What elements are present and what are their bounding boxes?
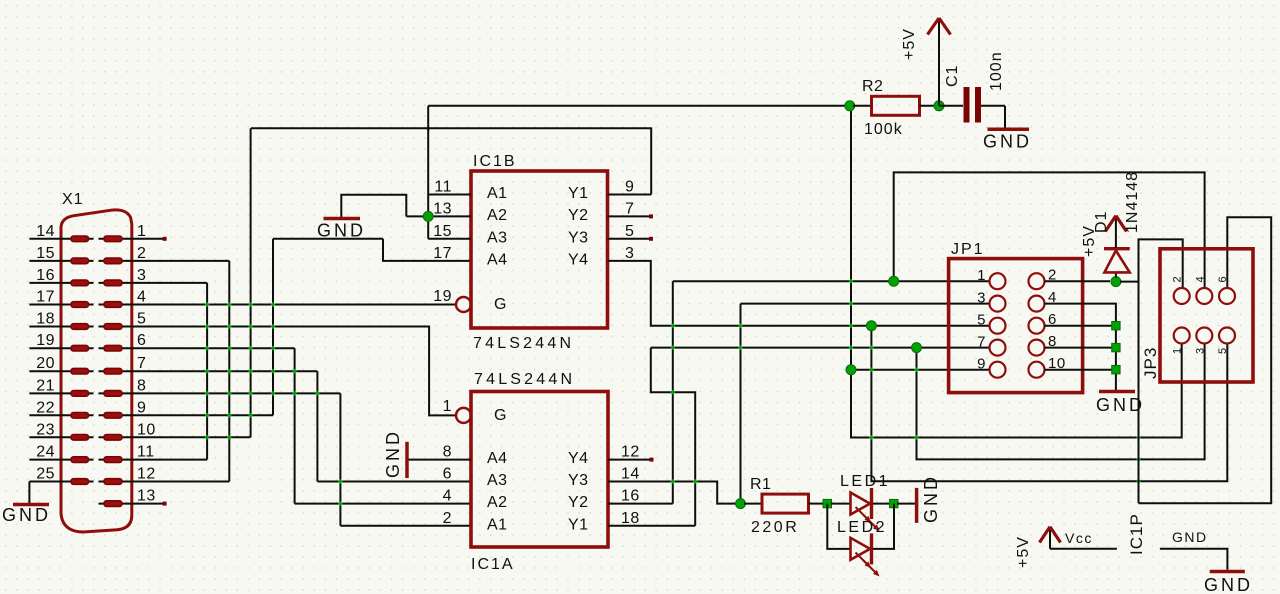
svg-text:10: 10: [137, 421, 156, 438]
pad X1 pin 12: [104, 479, 122, 485]
svg-text:15: 15: [433, 223, 452, 240]
wire X1 pin 21: [29, 392, 93, 394]
junction: [869, 435, 873, 439]
junction: [1136, 435, 1140, 439]
pin stub X1 pin 7: [99, 370, 133, 372]
junction R2 left: [845, 101, 855, 111]
wire X1 pin 18: [29, 326, 93, 328]
wire: [964, 87, 970, 123]
svg-text:GND: GND: [1172, 529, 1208, 545]
wire IC1P VCC: [1050, 548, 1117, 550]
wire JP1 pin6: [1045, 325, 1113, 327]
wire X1 pin8 to V7: [132, 392, 340, 394]
svg-text:R1: R1: [750, 476, 771, 493]
wire: [981, 105, 1005, 107]
svg-text:100n: 100n: [988, 51, 1005, 91]
inversion bubble IC1A G: [456, 408, 471, 423]
junction: [693, 479, 697, 483]
pin JP1 6: [1029, 318, 1045, 334]
wire X1 pin 19: [29, 347, 93, 349]
svg-text:A2: A2: [487, 207, 508, 224]
wire JP1 pin9 row: [851, 369, 989, 371]
svg-text:IC1B: IC1B: [473, 153, 517, 170]
junction: [914, 435, 918, 439]
pin JP1 7: [990, 340, 1006, 356]
junction R1 left: [736, 499, 746, 509]
junction: [315, 391, 319, 395]
svg-text:3: 3: [1194, 347, 1206, 354]
svg-text:+5V: +5V: [901, 28, 918, 60]
junction: [227, 391, 231, 395]
wire X1 pin 15: [29, 260, 93, 262]
svg-text:6: 6: [443, 466, 452, 483]
wire X1 pin 22: [29, 414, 93, 416]
svg-text:15: 15: [36, 245, 55, 262]
wire: [873, 503, 891, 505]
wire X1 pin11: [132, 459, 207, 461]
svg-text:G: G: [494, 407, 507, 424]
svg-text:19: 19: [433, 288, 452, 305]
wire: [1004, 106, 1006, 128]
svg-text:4: 4: [137, 289, 146, 306]
svg-text:Y2: Y2: [568, 494, 589, 511]
wire: [938, 20, 940, 106]
wire V4 from A4 net down to pin9: [272, 239, 274, 415]
wire: [915, 488, 919, 523]
wire: [1210, 570, 1245, 574]
junction: [849, 279, 853, 283]
wire IC1B pin5 stub: [608, 238, 652, 240]
wire: [809, 503, 825, 505]
junction JP1 pin7 row: [912, 343, 922, 353]
svg-text:24: 24: [36, 444, 55, 461]
svg-text:1: 1: [1172, 347, 1184, 354]
pad X1 pin 22: [71, 413, 89, 419]
svg-text:C1: C1: [944, 65, 961, 87]
wire IC1B pin3 Y4 to JP1 pin5: [608, 261, 990, 326]
wire JP1 pin10: [1045, 369, 1113, 371]
pin stub X1 pin 1: [99, 238, 133, 240]
svg-text:220R: 220R: [751, 519, 799, 536]
wire: [870, 488, 873, 519]
junction pin9/V3: [248, 413, 252, 417]
wire V6 pin7 to IC1A A3: [316, 371, 318, 481]
junction: [869, 345, 873, 349]
svg-text:3: 3: [625, 245, 634, 262]
svg-text:GND: GND: [1096, 395, 1145, 415]
wire A4 net horizontal: [273, 238, 383, 240]
pad X1 pin 8: [104, 391, 122, 397]
junction: [271, 302, 275, 306]
svg-text:JP1: JP1: [951, 241, 985, 258]
junction: [227, 302, 231, 306]
junction JP1 pin9 row: [846, 365, 856, 375]
pin stub X1 pin 9: [99, 414, 133, 416]
wire LED2 cathode up: [873, 504, 894, 549]
junction pin8: [1112, 343, 1120, 351]
junction: [869, 368, 873, 372]
pad X1 pin 11: [104, 457, 122, 463]
wire GND to pin13 net: [341, 195, 406, 217]
wire IC1B pin9 Y1: [608, 194, 652, 196]
LED arrow: [864, 561, 877, 574]
wire X1 pin6 to V5: [132, 347, 295, 349]
pin stub X1 pin 3: [99, 282, 133, 284]
pad X1 pin 25: [71, 479, 89, 485]
wire: [1099, 390, 1135, 394]
svg-text:A3: A3: [487, 472, 508, 489]
wire step to IC1B pin17 A4: [383, 239, 471, 261]
junction: [227, 346, 231, 350]
wire: [324, 217, 361, 221]
wire IC1A pin16 Y2: [608, 503, 673, 505]
svg-text:4: 4: [443, 488, 452, 505]
wire X1 pin 14: [29, 238, 93, 240]
junction: [248, 302, 252, 306]
svg-text:D1: D1: [1093, 211, 1110, 233]
junction: [271, 346, 275, 350]
pin stub X1 pin 10: [99, 436, 133, 438]
LED arrow: [856, 553, 869, 566]
svg-text:Y1: Y1: [568, 516, 589, 533]
pin JP3 1: [1174, 328, 1190, 344]
wire IC1B pin13: [406, 215, 471, 217]
svg-text:3: 3: [977, 290, 986, 307]
wire IC1B pin11: [428, 194, 471, 196]
junction: [738, 324, 742, 328]
wire X1 pin3 to V1: [132, 282, 207, 284]
junction: [205, 435, 209, 439]
junction pin6: [1112, 322, 1120, 330]
junction: [271, 391, 275, 395]
svg-text:6: 6: [1217, 276, 1229, 283]
pad X1 pin 17: [71, 302, 89, 308]
svg-text:Y3: Y3: [568, 229, 589, 246]
wire X1 pin 23: [29, 436, 93, 438]
pad X1 pin 15: [71, 258, 89, 264]
wire X1 pin 16: [29, 282, 93, 284]
pin JP3 2: [1174, 288, 1190, 304]
wire X1 pin 25: [29, 481, 93, 483]
LED arrow: [864, 516, 877, 529]
wire to IC1A pin2 A1: [340, 525, 471, 527]
pin stub X1 pin 13: [99, 503, 133, 505]
pin stub X1 pin 6: [99, 347, 133, 349]
wire IC1A pin18 Y1: [608, 525, 695, 527]
pad X1 pin 13: [104, 501, 122, 507]
wire Y1 feedback net: [251, 128, 651, 194]
junction D1 anode: [1111, 277, 1121, 287]
junction: [205, 302, 209, 306]
pad X1 pin 19: [71, 345, 89, 351]
svg-text:Y3: Y3: [568, 472, 589, 489]
svg-text:14: 14: [621, 466, 640, 483]
wire JP1 pin3 row: [741, 303, 990, 305]
junction: [271, 369, 275, 373]
svg-text:9: 9: [625, 179, 634, 196]
svg-text:LED2: LED2: [837, 519, 887, 536]
junction: [671, 324, 675, 328]
wire vertical to R2 net: [427, 106, 429, 239]
wire: [1049, 529, 1051, 549]
pad X1 pin 2: [104, 258, 122, 264]
junction: [1136, 457, 1140, 461]
svg-text:8: 8: [443, 444, 452, 461]
junction: [671, 390, 675, 394]
svg-text:17: 17: [36, 289, 55, 306]
junction: [205, 324, 209, 328]
wire JP3 pin6 route: [1139, 217, 1272, 503]
pin stub X1 pin 11: [99, 459, 133, 461]
wire: [988, 128, 1030, 132]
junction: [671, 479, 675, 483]
svg-text:A4: A4: [487, 251, 508, 268]
junction: [227, 435, 231, 439]
wire X1 pin10: [132, 436, 251, 438]
svg-text:5: 5: [137, 311, 146, 328]
wire IC1B pin7 stub: [608, 215, 652, 217]
svg-text:GND: GND: [317, 221, 366, 241]
wire to GND: [897, 503, 915, 505]
junction: [292, 369, 296, 373]
pad X1 pin 20: [71, 368, 89, 374]
junction: [227, 369, 231, 373]
wire X1 pin 17: [29, 304, 93, 306]
pin JP1 2: [1029, 273, 1045, 289]
pad X1 pin 18: [71, 324, 89, 330]
wire X1 pin 20: [29, 370, 93, 372]
svg-text:Y1: Y1: [568, 185, 589, 202]
+5V supply symbol at D1: [1105, 216, 1126, 232]
junction: [271, 324, 275, 328]
pin JP3 5: [1219, 328, 1235, 344]
svg-text:IC1A: IC1A: [471, 556, 515, 573]
svg-text:GND: GND: [983, 132, 1032, 152]
svg-text:GND: GND: [2, 505, 51, 525]
wire JP1 pin1 row: [673, 280, 989, 282]
junction LED cathode: [890, 499, 898, 507]
svg-text:1: 1: [977, 267, 986, 284]
svg-text:5: 5: [625, 223, 634, 240]
svg-text:19: 19: [36, 332, 55, 349]
svg-text:7: 7: [137, 355, 146, 372]
junction: [248, 346, 252, 350]
svg-text:9: 9: [137, 399, 146, 416]
junction: [1136, 479, 1140, 483]
wire X1 pin4 to IC1B G: [132, 304, 456, 306]
junction LED anode: [823, 499, 831, 507]
wire: [1115, 272, 1117, 277]
pin JP1 5: [990, 318, 1006, 334]
svg-text:GND: GND: [1204, 575, 1253, 594]
junction: [248, 324, 252, 328]
svg-text:LED1: LED1: [840, 473, 890, 490]
wire JP1 pin7 net to JP3 pin3: [917, 344, 1205, 460]
junction: [227, 413, 231, 417]
svg-text:2: 2: [1172, 276, 1184, 283]
connector X1 body: [61, 210, 132, 532]
svg-text:16: 16: [621, 488, 640, 505]
wire X1 pin12: [132, 481, 229, 483]
junction: [205, 369, 209, 373]
wire JP1 pin5 net to JP3 pin5: [871, 326, 1227, 482]
svg-text:A3: A3: [487, 229, 508, 246]
svg-text:2: 2: [137, 245, 146, 262]
svg-text:IC1P: IC1P: [1127, 513, 1146, 555]
junction: [849, 345, 853, 349]
pad X1 pin 3: [104, 280, 122, 286]
junction: [248, 369, 252, 373]
pin stub X1 pin 4: [99, 304, 133, 306]
pad X1 pin 10: [104, 435, 122, 441]
svg-text:2: 2: [443, 510, 452, 527]
pin JP1 9: [990, 362, 1006, 378]
op-amp buffer IC1B box: [471, 171, 608, 328]
pin JP1 3: [990, 296, 1006, 312]
wire X1 pin 13 stub: [132, 503, 165, 505]
junction JP1 pin1 row: [889, 276, 899, 286]
pad X1 pin 21: [71, 391, 89, 397]
pad X1 pin 1: [104, 236, 122, 242]
op-amp buffer IC1A box: [471, 392, 608, 548]
svg-text:13: 13: [137, 488, 156, 505]
svg-text:Y2: Y2: [568, 207, 589, 224]
wire vertical C: [740, 304, 742, 504]
inversion bubble IC1B G: [456, 297, 471, 312]
pad X1 pin 9: [104, 413, 122, 419]
wire: [744, 503, 762, 505]
svg-text:GND: GND: [383, 429, 403, 478]
wire V1 pin3-pin11: [206, 283, 208, 460]
junction IC1B pin13: [423, 211, 433, 221]
wire V5 pin6 to IC1A A2: [294, 348, 296, 503]
junction: [227, 324, 231, 328]
svg-text:1: 1: [137, 223, 146, 240]
svg-text:R2: R2: [862, 78, 883, 95]
pin JP3 4: [1196, 288, 1212, 304]
junction: [338, 501, 342, 505]
junction JP1 pin5 row: [866, 321, 876, 331]
junction pin10: [1112, 366, 1120, 374]
wire: [975, 87, 981, 123]
svg-text:1N4148: 1N4148: [1124, 171, 1141, 233]
junction: [914, 368, 918, 372]
wire to IC1A pin6 A3: [317, 481, 471, 483]
svg-text:11: 11: [434, 179, 452, 196]
wire V3 from Y1 net down to pin10: [250, 128, 252, 437]
svg-text:17: 17: [433, 245, 452, 262]
pin JP1 10: [1029, 362, 1045, 378]
junction: [205, 346, 209, 350]
wire IC1A pin14 Y3 to R1: [608, 482, 737, 504]
svg-text:12: 12: [621, 444, 640, 461]
svg-text:Y4: Y4: [568, 450, 589, 467]
wire vertical B: [672, 281, 674, 503]
svg-text:100k: 100k: [864, 121, 903, 138]
svg-text:8: 8: [137, 377, 146, 394]
junction: [849, 324, 853, 328]
svg-text:A1: A1: [487, 185, 508, 202]
svg-text:5: 5: [977, 312, 986, 329]
wire: [920, 105, 937, 107]
wire X1 pin5 to IC1A G: [132, 327, 456, 416]
svg-text:74LS244N: 74LS244N: [474, 371, 575, 388]
svg-text:25: 25: [36, 466, 55, 483]
junction: [248, 391, 252, 395]
wire: [13, 503, 49, 507]
svg-text:12: 12: [137, 466, 156, 483]
pad X1 pin 7: [104, 368, 122, 374]
junction crossing: [426, 126, 430, 130]
pin stub X1 pin 8: [99, 392, 133, 394]
svg-text:GND: GND: [921, 474, 941, 523]
pad X1 pin 23: [71, 435, 89, 441]
svg-text:21: 21: [36, 377, 55, 394]
wire JP1 pin4 to GND: [1045, 304, 1116, 391]
svg-text:3: 3: [137, 267, 146, 284]
LED arrow: [856, 507, 869, 520]
svg-text:1: 1: [443, 398, 452, 415]
wire JP3 pin2 route: [1139, 239, 1183, 503]
wire JP1 pin1 net to JP3 pin4: [894, 172, 1205, 288]
svg-text:7: 7: [625, 200, 634, 217]
wire to LED2: [827, 504, 850, 549]
svg-text:X1: X1: [62, 191, 84, 208]
pin JP3 3: [1196, 328, 1212, 344]
svg-text:23: 23: [36, 421, 55, 438]
svg-text:A4: A4: [487, 450, 508, 467]
pad X1 pin 14: [71, 236, 89, 242]
pin JP1 1: [990, 273, 1006, 289]
junction: [205, 391, 209, 395]
svg-text:JP3: JP3: [1141, 347, 1160, 379]
svg-text:A1: A1: [487, 516, 508, 533]
pad X1 pin 6: [104, 345, 122, 351]
junction: [671, 345, 675, 349]
wire JP1 pin7 row: [651, 347, 989, 349]
svg-text:+5V: +5V: [1015, 536, 1032, 568]
svg-text:18: 18: [621, 510, 640, 527]
wire: [405, 442, 409, 478]
connector JP3 box: [1160, 249, 1253, 382]
wire JP1 pin2 to D1: [1045, 280, 1111, 282]
wire JP1 pin8: [1045, 347, 1113, 349]
svg-text:Vcc: Vcc: [1065, 530, 1093, 546]
svg-text:18: 18: [36, 311, 55, 328]
pin JP1 8: [1029, 340, 1045, 356]
svg-text:22: 22: [36, 399, 55, 416]
svg-text:Y4: Y4: [568, 251, 589, 268]
pin stub X1 pin 2: [99, 260, 133, 262]
wire to IC1A pin4 A2: [295, 503, 471, 505]
pin stub X1 pin 12: [99, 481, 133, 483]
svg-text:6: 6: [137, 332, 146, 349]
wire X1 pin2 to V2: [132, 260, 229, 262]
svg-text:9: 9: [977, 356, 986, 373]
pad X1 pin 5: [104, 324, 122, 330]
wire V7 pin8 to IC1A A1: [339, 393, 341, 525]
pad X1 pin 24: [71, 457, 89, 463]
wire IC1A pin12 stub: [608, 459, 652, 461]
wire: [1115, 218, 1117, 248]
svg-text:11: 11: [137, 444, 155, 461]
wire R2 net down to JP3 pin1: [851, 106, 1182, 438]
svg-text:13: 13: [433, 200, 452, 217]
wire X1 pin 24: [29, 459, 93, 461]
svg-text:A2: A2: [487, 494, 508, 511]
junction: [849, 301, 853, 305]
svg-text:74LS244N: 74LS244N: [473, 335, 574, 352]
